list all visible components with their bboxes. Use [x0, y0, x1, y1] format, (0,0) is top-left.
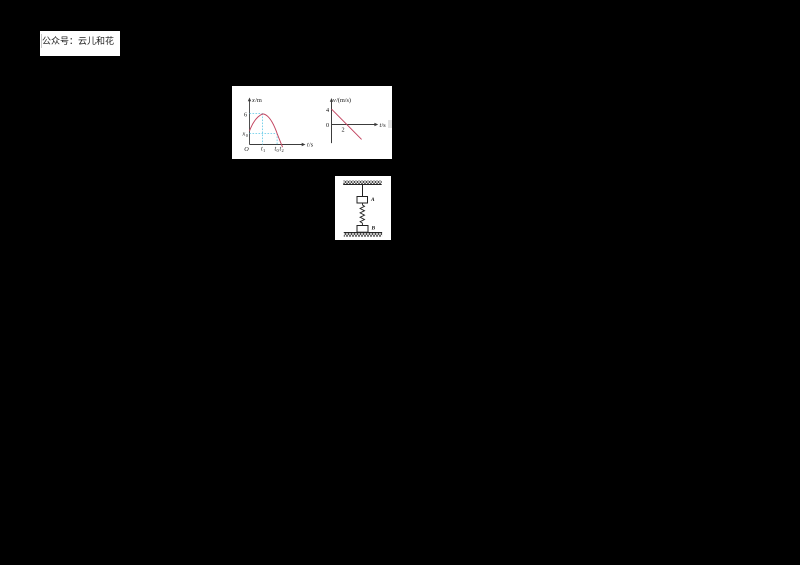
- spring-mass figure: [335, 176, 391, 240]
- right graph y-axis: [331, 100, 333, 143]
- svg-text:4: 4: [326, 107, 329, 114]
- dashed guide vertical at t0: [276, 134, 278, 145]
- faint caret line: [41, 34, 42, 48]
- ceiling hatched band: [343, 181, 382, 185]
- right graph x-axis arrowhead: [374, 123, 378, 126]
- svg-text:0: 0: [246, 133, 249, 138]
- v-t red line: [332, 109, 362, 139]
- floor line: [344, 232, 382, 234]
- svg-text:/(m/s): /(m/s): [336, 97, 351, 104]
- dashed guide horizontal at x=6: [250, 113, 263, 115]
- svg-text:0: 0: [326, 122, 329, 129]
- x-t parabolic curve: [250, 114, 283, 147]
- svg-text:A: A: [370, 197, 375, 203]
- svg-text:1: 1: [263, 148, 265, 153]
- svg-text:2: 2: [282, 148, 284, 153]
- gray tab near right edge of graphs figure: [388, 120, 392, 128]
- svg-text:6: 6: [244, 111, 247, 118]
- right graph x-axis: [332, 124, 377, 126]
- svg-text:B: B: [371, 225, 376, 231]
- svg-text:2: 2: [342, 126, 345, 133]
- string from ceiling to block A: [362, 185, 364, 197]
- left graph y-axis arrowhead: [248, 98, 251, 102]
- svg-text:/m: /m: [255, 97, 262, 104]
- dashed guide vertical at t1: [262, 114, 264, 145]
- block A: [357, 197, 368, 204]
- ceiling line: [343, 184, 382, 186]
- svg-text:/s: /s: [382, 122, 387, 129]
- floor hatched band: [344, 233, 382, 237]
- right graph y-axis arrowhead: [330, 98, 333, 102]
- spring between A and B: [360, 203, 364, 225]
- svg-text:/s: /s: [309, 142, 314, 149]
- watermark text box 公众号：云儿和花: [40, 31, 120, 56]
- svg-text:O: O: [244, 146, 249, 153]
- left graph y-axis: [249, 100, 251, 145]
- physics graphs figure (x-t and v-t): [232, 86, 392, 159]
- left graph x-axis: [250, 144, 304, 146]
- left graph x-axis arrowhead: [302, 143, 306, 146]
- dashed guide horizontal at x0: [250, 133, 278, 135]
- block B: [357, 226, 368, 233]
